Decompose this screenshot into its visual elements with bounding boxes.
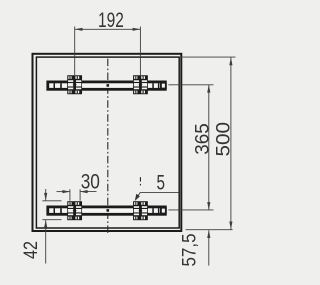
centerline dot on bottom rail [107, 209, 110, 212]
extension line panel bottom right [186, 229, 233, 231]
dimension 365 arrow down [207, 202, 210, 210]
extension line top rail right [168, 84, 213, 86]
clamp top-right [133, 75, 148, 94]
clamp bottom-right [133, 201, 148, 220]
dimension 30 line right tail [80, 191, 96, 193]
dimension 42 line upper tail [45, 189, 47, 200]
dimension 42 extension line lower [42, 219, 61, 221]
svg-text:57,5: 57,5 [180, 234, 201, 267]
dimension 192 extension line left [74, 27, 76, 76]
dimension 30 arrow right [80, 190, 88, 193]
dimension 192 arrow left [75, 28, 83, 31]
svg-text:5: 5 [157, 172, 166, 195]
dimension 192 extension line right [139, 27, 141, 76]
dimension 192 line [75, 28, 141, 30]
svg-text:192: 192 [98, 9, 124, 32]
vertical centerline (dash-dot) [107, 59, 109, 234]
dimension 365 arrow up [207, 85, 210, 93]
dimension 57,5 arrow up [207, 230, 210, 238]
svg-text:42: 42 [21, 241, 42, 259]
dimension 30 extension line right [79, 189, 81, 201]
svg-text:30: 30 [81, 171, 100, 194]
leader 5 diagonal line [136, 192, 141, 199]
dimension 500 arrow up [229, 58, 232, 66]
leader 5 landing line [140, 191, 179, 193]
dimension 57,5 line [208, 230, 210, 265]
rail top [48, 82, 167, 89]
dimension 42 arrow up [44, 220, 47, 228]
dimension 42 arrow down [44, 193, 47, 201]
svg-text:500: 500 [214, 122, 235, 157]
panel outer frame [33, 54, 182, 231]
dimension 30 extension line left [69, 189, 71, 201]
dimension 192 arrow right [133, 28, 141, 31]
dimension 500 arrow down [229, 222, 232, 230]
dimension 30 arrow left [62, 190, 70, 193]
extension line bottom rail right [168, 209, 213, 211]
dimension 500 line [230, 57, 232, 230]
clamp top-left [67, 75, 82, 94]
centerline stub above bottom-right clamp [139, 177, 141, 187]
centerline dot on top rail [107, 84, 110, 87]
panel inner frame [36, 57, 179, 228]
svg-text:365: 365 [192, 123, 213, 155]
dimension 42 extension line upper [42, 200, 61, 202]
dimension 42 line lower tail [45, 220, 47, 263]
clamp bottom-left [67, 201, 82, 220]
dimension 365 line [208, 85, 210, 210]
rail bottom [48, 207, 167, 214]
dimension 30 line left tail [57, 191, 70, 193]
leader 5 arrow [135, 194, 140, 201]
extension line panel top right [179, 56, 235, 58]
